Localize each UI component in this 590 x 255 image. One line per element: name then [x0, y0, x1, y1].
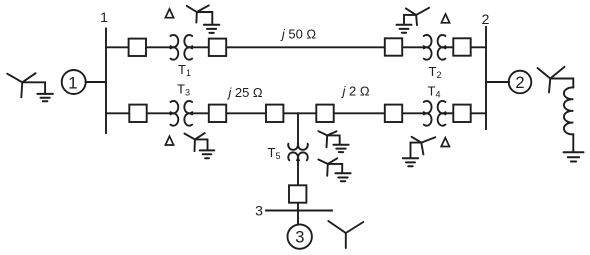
svg-text:T4: T4: [428, 84, 441, 100]
svg-text:j 2 Ω: j 2 Ω: [340, 84, 369, 99]
svg-text:1: 1: [100, 9, 108, 25]
svg-text:1: 1: [68, 74, 77, 93]
svg-text:T1: T1: [178, 62, 191, 78]
svg-text:T5: T5: [268, 145, 281, 161]
svg-text:3: 3: [295, 229, 304, 247]
svg-text:T2: T2: [429, 64, 442, 80]
svg-text:2: 2: [482, 11, 490, 27]
svg-text:2: 2: [515, 74, 524, 92]
svg-text:3: 3: [255, 202, 263, 218]
svg-text:j 50 Ω: j 50 Ω: [280, 26, 317, 41]
svg-text:j 25 Ω: j 25 Ω: [226, 85, 263, 100]
svg-text:T3: T3: [177, 82, 190, 98]
